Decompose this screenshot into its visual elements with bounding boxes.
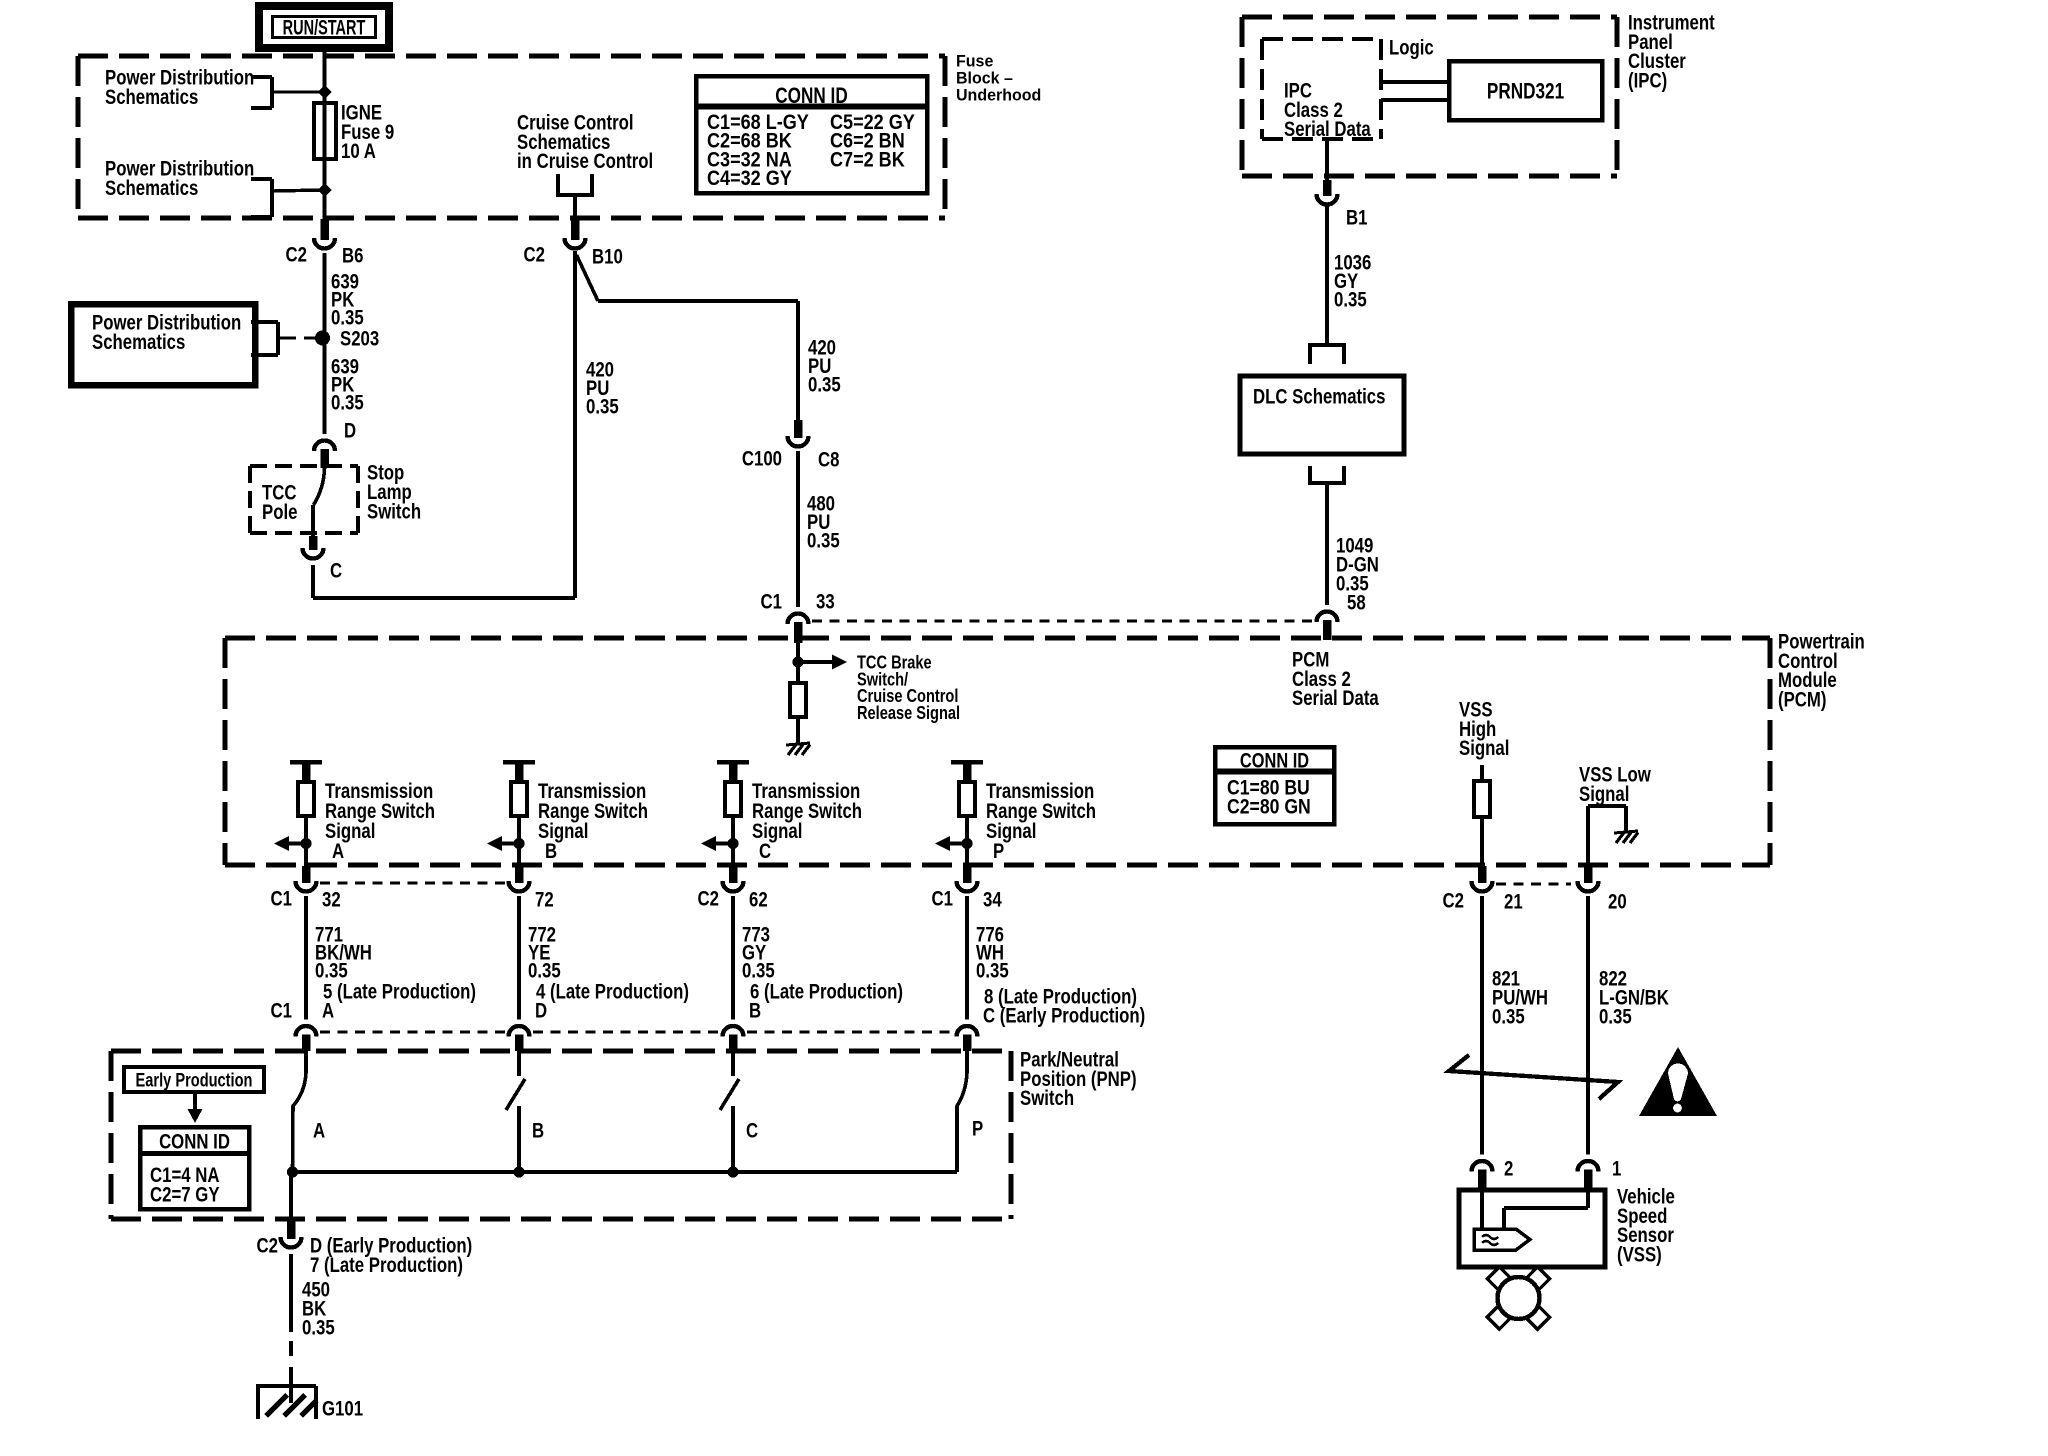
svg-text:0.35: 0.35 [315,960,348,983]
svg-text:7 (Late Production): 7 (Late Production) [310,1254,463,1277]
svg-text:in Cruise Control: in Cruise Control [517,150,653,173]
svg-text:0.35: 0.35 [976,960,1009,983]
svg-text:Serial Data: Serial Data [1292,687,1379,710]
svg-text:0.35: 0.35 [1492,1006,1525,1029]
svg-text:72: 72 [535,889,554,912]
svg-text:0.35: 0.35 [1599,1006,1632,1029]
svg-text:C1: C1 [932,888,954,911]
svg-text:B: B [532,1120,544,1143]
svg-text:P: P [972,1118,983,1141]
svg-text:33: 33 [816,591,835,614]
svg-text:Underhood: Underhood [956,86,1041,104]
svg-text:Release Signal: Release Signal [857,702,960,723]
svg-text:D: D [344,420,356,443]
svg-text:0.35: 0.35 [528,960,561,983]
svg-text:10 A: 10 A [341,140,376,163]
svg-text:C: C [759,840,771,863]
svg-text:G101: G101 [322,1398,363,1421]
svg-text:PRND321: PRND321 [1487,79,1564,104]
svg-text:Schematics: Schematics [92,331,185,354]
svg-text:Fuse: Fuse [956,52,993,70]
svg-text:B10: B10 [592,246,623,269]
svg-text:0.35: 0.35 [1334,289,1367,312]
svg-text:A: A [313,1120,325,1143]
svg-text:0.35: 0.35 [331,392,364,415]
svg-text:C2=80 GN: C2=80 GN [1227,795,1311,819]
svg-text:58: 58 [1347,592,1366,615]
svg-text:C2: C2 [1443,890,1464,913]
svg-text:C1: C1 [271,1000,293,1023]
svg-text:0.35: 0.35 [742,960,775,983]
svg-text:Early Production: Early Production [136,1068,253,1091]
svg-text:C2: C2 [286,244,307,267]
svg-text:A: A [332,840,344,863]
svg-text:C2: C2 [257,1235,278,1258]
svg-text:34: 34 [983,889,1002,912]
svg-text:C: C [746,1120,758,1143]
svg-text:P: P [993,840,1004,863]
svg-text:1: 1 [1612,1158,1622,1181]
svg-text:C2=7 GY: C2=7 GY [150,1184,220,1207]
svg-text:Switch: Switch [367,501,421,524]
svg-text:CONN ID: CONN ID [1240,748,1309,771]
svg-text:S203: S203 [340,328,379,351]
svg-text:62: 62 [749,889,768,912]
svg-text:0.35: 0.35 [586,396,619,419]
svg-text:C1: C1 [761,591,783,614]
svg-text:A: A [322,1000,334,1023]
svg-text:4 (Late Production): 4 (Late Production) [536,981,689,1004]
svg-text:C (Early Production): C (Early Production) [983,1005,1145,1028]
svg-text:DLC Schematics: DLC Schematics [1253,386,1385,409]
svg-text:B: B [545,840,557,863]
svg-text:(IPC): (IPC) [1628,70,1667,93]
svg-text:Switch: Switch [1020,1087,1074,1110]
svg-text:32: 32 [322,889,341,912]
svg-text:0.35: 0.35 [302,1317,335,1340]
svg-text:C7=2 BK: C7=2 BK [830,148,905,172]
svg-text:20: 20 [1608,891,1627,914]
svg-text:C100: C100 [742,448,782,471]
svg-text:Serial Data: Serial Data [1284,118,1371,141]
svg-text:CONN ID: CONN ID [159,1131,230,1154]
svg-text:C4=32 GY: C4=32 GY [707,167,792,191]
svg-text:B1: B1 [1346,207,1368,230]
svg-text:Schematics: Schematics [105,177,198,200]
svg-text:Signal: Signal [1579,783,1629,806]
svg-text:(PCM): (PCM) [1778,689,1826,712]
svg-text:C2: C2 [698,888,719,911]
svg-text:Logic: Logic [1389,37,1434,60]
svg-text:C1: C1 [271,888,293,911]
svg-text:(VSS): (VSS) [1617,1244,1662,1267]
svg-text:Signal: Signal [1459,737,1509,760]
svg-text:0.35: 0.35 [808,374,841,397]
svg-text:21: 21 [1504,891,1523,914]
svg-text:Pole: Pole [262,501,297,524]
svg-text:B6: B6 [342,245,363,268]
svg-text:6 (Late Production): 6 (Late Production) [750,981,903,1004]
svg-text:5 (Late Production): 5 (Late Production) [323,981,476,1004]
svg-text:0.35: 0.35 [331,307,364,330]
svg-text:C2: C2 [524,244,545,267]
svg-text:D: D [535,1000,547,1023]
svg-text:2: 2 [1504,1158,1513,1181]
svg-text:RUN/START: RUN/START [283,15,366,40]
svg-text:B: B [749,1000,761,1023]
svg-text:Schematics: Schematics [105,86,198,109]
svg-text:Block –: Block – [956,69,1013,87]
svg-text:0.35: 0.35 [807,530,840,553]
svg-text:C: C [330,560,342,583]
svg-text:C8: C8 [818,449,839,472]
